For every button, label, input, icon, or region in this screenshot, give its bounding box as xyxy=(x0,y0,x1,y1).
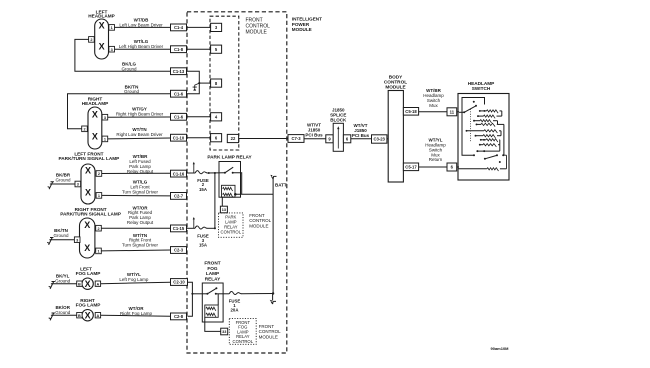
svg-text:PARK LAMP RELAY: PARK LAMP RELAY xyxy=(207,155,252,160)
wire left fused park lamp relay output xyxy=(102,172,171,174)
wire C1-8 to pin 5 xyxy=(187,48,211,50)
wire park feed down to fuse 3 xyxy=(214,173,216,228)
fog relay coil xyxy=(205,305,218,317)
connector C1-6 ground xyxy=(171,90,187,97)
pin 2 left headlamp xyxy=(89,37,95,43)
pin 2 right headlamp xyxy=(82,126,88,132)
wire left front lamp ground xyxy=(53,183,76,185)
switch resistor row 8 xyxy=(479,144,481,146)
connector C2-7 xyxy=(171,193,187,200)
junction BATT bus bottom xyxy=(272,292,274,294)
wire pin 11 to switch xyxy=(457,111,459,113)
front control module boundary top (dashed) xyxy=(210,16,239,150)
label WT/OR Right Fused Park Lamp Relay Output xyxy=(127,205,154,225)
pin 3 front control module xyxy=(211,23,222,31)
svg-text:Relay Output: Relay Output xyxy=(127,220,154,225)
wire left fog lamp ground xyxy=(54,283,77,285)
svg-text:X: X xyxy=(92,110,98,120)
pin 1 left front lamp xyxy=(96,193,102,199)
svg-text:C2-8: C2-8 xyxy=(174,314,184,319)
switch row5-row6 link xyxy=(500,131,502,136)
pin 6 headlamp switch xyxy=(447,163,457,171)
label FRONT CONTROL MODULE (top) xyxy=(246,17,271,35)
wire fog lamps to relay junction xyxy=(188,282,193,316)
svg-text:2: 2 xyxy=(98,172,100,176)
svg-text:Ground: Ground xyxy=(55,278,71,283)
switch row1-row2 link xyxy=(501,111,503,116)
intelligent power module boundary (dashed) xyxy=(187,12,287,353)
svg-text:20A: 20A xyxy=(231,307,239,312)
svg-text:X: X xyxy=(92,131,98,141)
fused output arrow fuse 3 xyxy=(193,218,195,228)
label FUSE 2 15A xyxy=(197,178,209,192)
connector C5-18 xyxy=(403,108,418,116)
wire splice to C3-23 xyxy=(351,138,372,140)
svg-text:Right Fog Lamp: Right Fog Lamp xyxy=(120,311,153,316)
BATT bus vertical xyxy=(272,179,274,294)
svg-text:2: 2 xyxy=(90,38,92,42)
svg-text:MODULE: MODULE xyxy=(246,30,268,36)
svg-text:BATT: BATT xyxy=(275,182,287,187)
svg-text:CONTROL: CONTROL xyxy=(221,229,242,234)
label WT/OR Right Fog Lamp xyxy=(120,306,153,316)
svg-text:13: 13 xyxy=(222,208,226,212)
ground symbol inside IPM xyxy=(193,83,200,88)
svg-text:Left High Beam Driver: Left High Beam Driver xyxy=(119,44,164,49)
svg-text:C1-10: C1-10 xyxy=(173,135,185,140)
pin 3 left headlamp xyxy=(109,46,115,52)
label INTELLIGENT POWER MODULE xyxy=(292,17,322,32)
svg-text:SWITCH: SWITCH xyxy=(472,86,491,91)
switch dotted guide xyxy=(470,109,472,142)
switch stray contact xyxy=(499,161,501,163)
pin 4 front control module xyxy=(211,113,222,121)
wire left low beam driver xyxy=(115,26,171,28)
svg-text:FOG LAMP: FOG LAMP xyxy=(76,303,101,308)
right front park/turn signal lamp label xyxy=(60,207,121,217)
label WT/YL Left Fog Lamp xyxy=(119,272,149,282)
J1850 splice block xyxy=(333,123,343,151)
svg-text:RELAY: RELAY xyxy=(205,276,221,281)
svg-text:X: X xyxy=(85,310,91,320)
switch lower right contact xyxy=(502,154,504,156)
pin 9 splice block xyxy=(326,135,333,143)
wire park relay coil to BATT bus xyxy=(235,193,273,195)
pin 1 right front lamp xyxy=(96,248,102,254)
connector C5-17 xyxy=(403,163,418,171)
svg-text:Ground: Ground xyxy=(55,310,71,315)
fused output arrow fuse 2 xyxy=(193,163,195,173)
label WT/VT J1850 PCI Bus right xyxy=(352,123,370,138)
svg-text:Turn Signal Driver: Turn Signal Driver xyxy=(122,190,159,195)
svg-text:C1-6: C1-6 xyxy=(174,115,184,120)
switch right bus xyxy=(503,124,505,155)
pin 33 front control module xyxy=(221,328,228,335)
pin 3 left front lamp xyxy=(75,181,81,187)
wire left front turn signal driver xyxy=(102,194,171,197)
label WT/BR Headlamp Switch Mux xyxy=(423,88,444,108)
switch bottom resistor wire xyxy=(458,168,487,170)
connector C1-15 xyxy=(171,225,187,232)
switch lower pivot xyxy=(473,154,475,156)
connector C1-16 xyxy=(171,170,187,177)
svg-text:Ground: Ground xyxy=(124,89,140,94)
label PARK LAMP RELAY CONTROL xyxy=(221,214,242,234)
junction fuse 3 wire xyxy=(214,227,216,229)
svg-text:90am10M: 90am10M xyxy=(491,346,510,351)
wire C3-23 to BCM xyxy=(387,138,388,140)
wire right headlamp ground BK/TN xyxy=(68,94,171,129)
wire right front lamp ground xyxy=(52,239,74,241)
svg-text:Relay Output: Relay Output xyxy=(127,169,154,174)
svg-text:X: X xyxy=(85,187,91,197)
connector C2-10 xyxy=(171,279,188,286)
wire C1-4 to pin 3 xyxy=(187,26,211,28)
label FRONT CONTROL MODULE (fog relay) xyxy=(259,324,281,339)
svg-text:11: 11 xyxy=(450,110,455,115)
wire junction to fog relay xyxy=(192,293,207,295)
label WT/GY Right High Beam Driver xyxy=(116,107,164,117)
left headlamp label xyxy=(88,9,115,18)
lamp LEFT FOG LAMP xyxy=(82,278,93,289)
svg-text:1: 1 xyxy=(104,137,106,141)
label J1850 SPLICE BLOCK xyxy=(330,108,347,123)
switch arm 2 xyxy=(485,155,497,158)
pin 22 front control module xyxy=(227,134,238,142)
svg-text:C2-7: C2-7 xyxy=(174,194,184,199)
label BK/TN Ground (right front) xyxy=(53,228,69,238)
svg-text:C5-17: C5-17 xyxy=(405,165,417,170)
svg-text:2: 2 xyxy=(97,227,99,231)
pin 1 right headlamp xyxy=(102,136,108,142)
svg-text:Ground: Ground xyxy=(53,233,69,238)
wire C1-10 to pin 6 xyxy=(187,137,211,139)
svg-text:C3-23: C3-23 xyxy=(373,137,385,142)
switch lower contact pair xyxy=(476,150,478,152)
svg-text:X: X xyxy=(84,220,90,230)
label BK/TN Ground xyxy=(124,84,140,94)
svg-text:Turn Signal Driver: Turn Signal Driver xyxy=(122,243,159,248)
chassis ground right fog lamp xyxy=(49,313,55,320)
park relay fixed contact xyxy=(232,172,234,174)
relay PARK LAMP RELAY box xyxy=(219,162,241,198)
wire fog relay coil to contact wire xyxy=(217,294,219,305)
svg-text:2: 2 xyxy=(83,127,85,131)
label FRONT CONTROL MODULE (park relay) xyxy=(249,213,271,228)
wire left headlamp ground BK/LG xyxy=(75,39,171,71)
svg-text:FRONT: FRONT xyxy=(246,17,263,23)
label WT/YL Headlamp Switch Mux Return xyxy=(425,138,446,163)
svg-text:BLOCK: BLOCK xyxy=(330,118,347,123)
pin 3 right headlamp xyxy=(102,114,108,120)
label BK/LG Ground xyxy=(121,62,137,72)
pin 2 right front lamp xyxy=(96,225,102,231)
right fog lamp label xyxy=(76,298,101,308)
svg-text:33: 33 xyxy=(222,330,226,334)
svg-text:C1-16: C1-16 xyxy=(173,171,185,176)
headlamp switch box xyxy=(458,94,509,181)
lamp RIGHT HEADLAMP xyxy=(88,107,102,149)
switch inner frame xyxy=(462,98,485,156)
wire right low beam driver xyxy=(108,137,171,140)
svg-text:15A: 15A xyxy=(199,187,207,192)
park relay switch pivot xyxy=(224,172,226,174)
switch bottom right link xyxy=(506,155,508,169)
svg-text:PCI Bus: PCI Bus xyxy=(352,133,370,138)
svg-text:1: 1 xyxy=(97,249,99,253)
label FRONT FOG LAMP RELAY xyxy=(204,261,221,282)
connector C2-3 xyxy=(171,247,187,254)
svg-text:C2-10: C2-10 xyxy=(173,280,185,285)
switch wire pin11 entry xyxy=(459,111,464,113)
pin 8 front control module xyxy=(211,79,222,87)
label WT/BR Left Fused Park Lamp Relay Output xyxy=(127,154,154,174)
junction node ground xyxy=(198,82,200,84)
switch row7 bus link xyxy=(499,140,501,145)
wire pin 6 to switch xyxy=(457,166,459,168)
park lamp relay control dotted box xyxy=(219,213,244,237)
chassis ground left front lamp xyxy=(48,182,54,189)
lamp RIGHT FRONT PARK/TURN SIGNAL LAMP xyxy=(80,218,95,258)
connector C7-3 xyxy=(288,135,304,143)
wire junction to pin 8 xyxy=(199,82,210,84)
svg-text:Return: Return xyxy=(429,157,443,162)
junction fog feed xyxy=(191,293,193,295)
svg-text:X: X xyxy=(85,166,91,176)
svg-text:X: X xyxy=(84,243,90,253)
front fog lamp relay control dotted box xyxy=(229,319,256,345)
park relay coil xyxy=(222,185,236,197)
BATT feed arrow top xyxy=(272,176,277,179)
switch top contact xyxy=(473,101,475,103)
svg-text:X: X xyxy=(99,21,105,31)
wire fog relay to fuse 1 xyxy=(216,293,230,295)
wire C1-15 to junction with fuse 3 xyxy=(187,227,196,229)
fog relay switch pivot xyxy=(206,293,208,295)
splice block arrow xyxy=(337,128,339,148)
label WT/TN Right Low Beam Driver xyxy=(116,127,163,137)
svg-text:22: 22 xyxy=(231,136,236,141)
svg-text:Right Low Beam Driver: Right Low Beam Driver xyxy=(116,132,163,137)
pin B right fog lamp xyxy=(77,313,82,318)
svg-text:C1-6: C1-6 xyxy=(174,91,184,96)
svg-text:3: 3 xyxy=(76,238,78,242)
svg-text:Left Fog Lamp: Left Fog Lamp xyxy=(119,277,149,282)
switch resistor row 3 xyxy=(473,120,475,122)
svg-text:1: 1 xyxy=(111,26,113,30)
label FUSE 1 20A xyxy=(229,298,241,312)
pin B left fog lamp xyxy=(77,281,82,286)
lamp LEFT HEADLAMP xyxy=(95,19,109,59)
svg-text:CONTROL: CONTROL xyxy=(233,339,254,344)
pin 3 right front lamp xyxy=(74,237,80,243)
svg-text:MODULE: MODULE xyxy=(385,85,405,90)
svg-text:B: B xyxy=(78,314,81,318)
wire C7-3 to splice pin 9 xyxy=(304,138,326,140)
park relay coil terminal node xyxy=(234,193,237,196)
switch arm 1 xyxy=(464,106,476,112)
lamp RIGHT FOG LAMP xyxy=(82,310,93,321)
lamp LEFT FRONT PARK/TURN SIGNAL LAMP xyxy=(81,164,95,204)
park relay switch arm xyxy=(225,167,233,173)
switch resistor row 2 xyxy=(477,115,479,117)
chassis ground right front lamp xyxy=(47,238,53,245)
svg-text:A: A xyxy=(97,314,100,318)
svg-text:3: 3 xyxy=(111,48,113,52)
wire park relay contact to right edge xyxy=(233,173,242,195)
svg-text:Ground: Ground xyxy=(55,177,71,182)
svg-text:HEADLAMP: HEADLAMP xyxy=(88,14,115,19)
wire C5-17 to headlamp switch pin 6 xyxy=(419,166,447,168)
pin 2 left front lamp xyxy=(96,171,102,177)
connector C1-13 xyxy=(171,68,187,75)
svg-text:C5-18: C5-18 xyxy=(405,109,417,114)
svg-text:C2-3: C2-3 xyxy=(174,248,184,253)
switch resistor row 7 xyxy=(480,139,482,141)
connector C1-10 xyxy=(171,134,187,141)
svg-text:FOG LAMP: FOG LAMP xyxy=(76,271,101,276)
left front park/turn signal lamp label xyxy=(59,152,120,162)
svg-text:C1-8: C1-8 xyxy=(174,47,184,52)
switch lower bus link xyxy=(499,145,501,151)
svg-text:Mux: Mux xyxy=(429,103,438,108)
label FUSE 3 15A xyxy=(197,233,209,247)
wire right fused park lamp relay output xyxy=(101,227,170,229)
svg-text:X: X xyxy=(99,41,105,51)
pin 13 front control module xyxy=(220,206,227,213)
wire right front turn signal driver xyxy=(101,249,170,252)
body control module box xyxy=(388,91,403,183)
svg-text:MODULE: MODULE xyxy=(249,223,268,228)
label WT/LG Left Front Turn Signal Driver xyxy=(122,180,159,195)
chassis ground left fog lamp xyxy=(49,282,55,289)
label WT/LG Left High Beam Driver xyxy=(119,39,164,49)
wire C5-18 to headlamp switch pin 11 xyxy=(419,111,447,113)
switch resistor row 4 xyxy=(476,123,478,125)
wire left high beam driver xyxy=(115,48,171,50)
fog relay fixed contact xyxy=(215,293,217,295)
svg-text:B: B xyxy=(78,282,81,286)
label WT/VT J1850 PCI Bus left xyxy=(305,122,323,137)
label WT/DB Left Low Beam Driver xyxy=(119,18,163,28)
svg-text:C7-3: C7-3 xyxy=(291,136,301,141)
junction fuse 2 wire xyxy=(208,172,210,174)
connector C1-4 xyxy=(171,24,187,31)
svg-text:PARK/TURN SIGNAL LAMP: PARK/TURN SIGNAL LAMP xyxy=(60,212,121,217)
svg-text:A: A xyxy=(97,282,100,286)
svg-text:PARK/TURN SIGNAL LAMP: PARK/TURN SIGNAL LAMP xyxy=(59,156,120,161)
svg-text:PCI Bus: PCI Bus xyxy=(305,133,323,138)
switch row3-row4 link xyxy=(497,121,499,125)
wire right fog lamp feed xyxy=(101,315,171,316)
connector C3-23 xyxy=(372,135,387,143)
switch resistor row 1 xyxy=(479,110,481,112)
connector C1-8 xyxy=(171,46,187,53)
svg-text:15A: 15A xyxy=(199,242,207,247)
right headlamp label xyxy=(82,97,109,106)
label BK/OR Ground xyxy=(55,305,71,315)
svg-text:MODULE: MODULE xyxy=(259,334,278,339)
connector C2-8 xyxy=(171,313,187,320)
switch resistor row 5 xyxy=(467,130,485,132)
svg-text:HEADLAMP: HEADLAMP xyxy=(82,101,109,106)
label HEADLAMP SWITCH xyxy=(468,81,495,91)
label WT/TN Right Front Turn Signal Driver xyxy=(122,233,159,248)
fog relay arm contact xyxy=(215,287,217,289)
svg-text:X: X xyxy=(85,279,91,289)
pin 6 front control module xyxy=(211,134,222,142)
fog relay switch arm xyxy=(207,288,216,293)
wire left fog lamp feed xyxy=(101,282,171,284)
wire C1-6 to pin 4 xyxy=(187,116,211,118)
svg-text:3: 3 xyxy=(77,183,79,187)
svg-text:Ground: Ground xyxy=(121,66,137,71)
label BK/BR Ground xyxy=(55,172,71,182)
wire pin 22 to C7-3 PCI bus xyxy=(239,138,288,140)
svg-text:Right High Beam Driver: Right High Beam Driver xyxy=(116,112,164,117)
svg-text:3: 3 xyxy=(104,116,106,120)
pin 1 left headlamp xyxy=(109,25,115,31)
wire fog relay coil to pin 33 xyxy=(205,317,221,331)
label BODY CONTROL MODULE xyxy=(384,75,407,90)
switch resistor row 6 xyxy=(475,135,477,137)
pin A right fog lamp xyxy=(95,313,100,318)
wire fuse 1 to BATT bus xyxy=(241,293,273,295)
wire right high beam driver xyxy=(108,116,171,118)
wire C1-16 to park lamp relay with fuse 2 xyxy=(187,172,196,174)
wire park relay coil to pin 13 xyxy=(221,197,223,206)
svg-text:Left Low Beam Driver: Left Low Beam Driver xyxy=(119,22,163,27)
pin 5 front control module xyxy=(211,45,222,53)
ground junction wires inside IPM xyxy=(187,71,200,94)
connector C1-6 high beam xyxy=(171,113,187,120)
pin 11 headlamp switch xyxy=(447,108,457,116)
relay FRONT FOG LAMP RELAY box xyxy=(202,283,223,322)
label FRONT FOG LAMP RELAY CONTROL xyxy=(233,320,254,344)
svg-text:C1-15: C1-15 xyxy=(173,226,185,231)
wire right fog lamp ground xyxy=(54,314,77,316)
svg-text:C1-13: C1-13 xyxy=(173,69,185,74)
pin 6 splice block xyxy=(343,135,350,143)
svg-text:C1-4: C1-4 xyxy=(174,25,184,30)
svg-text:MODULE: MODULE xyxy=(292,27,312,32)
BATT feed arrow bottom xyxy=(272,294,274,301)
svg-text:CONTROL: CONTROL xyxy=(246,23,271,29)
left fog lamp label xyxy=(76,266,101,276)
junction park feed split xyxy=(214,172,216,174)
label BK/YL Ground xyxy=(55,274,71,284)
pin A left fog lamp xyxy=(95,281,100,286)
svg-text:1: 1 xyxy=(98,194,100,198)
